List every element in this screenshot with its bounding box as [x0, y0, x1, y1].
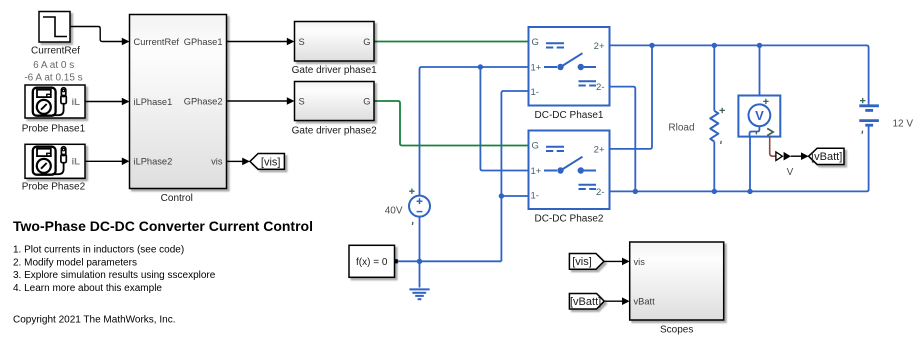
- svg-text:vis: vis: [634, 257, 646, 267]
- svg-text:G: G: [532, 37, 539, 48]
- svg-text:[vis]: [vis]: [261, 157, 281, 169]
- svg-text:2+: 2+: [594, 144, 605, 155]
- svg-text:Probe Phase1: Probe Phase1: [22, 123, 86, 134]
- svg-text:Gate driver phase1: Gate driver phase1: [292, 65, 377, 76]
- svg-text:6 A at 0 s: 6 A at 0 s: [33, 60, 74, 71]
- svg-text:Gate driver phase2: Gate driver phase2: [292, 125, 377, 136]
- svg-text:Rload: Rload: [668, 122, 694, 133]
- svg-text:DC-DC Phase2: DC-DC Phase2: [535, 213, 604, 224]
- svg-text:1+: 1+: [531, 166, 542, 177]
- svg-text:2-: 2-: [596, 187, 604, 198]
- svg-text:G: G: [532, 140, 539, 151]
- svg-text:[vBatt]: [vBatt]: [570, 296, 601, 308]
- svg-text:[vBatt]: [vBatt]: [811, 151, 842, 163]
- svg-text:1. Plot currents in inductors: 1. Plot currents in inductors (see code): [13, 245, 184, 256]
- svg-text:CurrentRef: CurrentRef: [134, 37, 180, 47]
- svg-text:GPhase1: GPhase1: [184, 37, 223, 47]
- svg-text:V: V: [787, 167, 794, 178]
- svg-text:V: V: [755, 108, 764, 123]
- svg-text:40V: 40V: [385, 206, 403, 217]
- svg-text:S: S: [299, 37, 305, 47]
- svg-text:GPhase2: GPhase2: [184, 96, 223, 106]
- svg-text:Copyright 2021 The MathWorks,: Copyright 2021 The MathWorks, Inc.: [13, 315, 176, 326]
- svg-text:iL: iL: [72, 157, 81, 168]
- svg-text:CurrentRef: CurrentRef: [31, 45, 80, 56]
- svg-text:S: S: [299, 96, 305, 106]
- svg-text:1-: 1-: [531, 190, 539, 201]
- svg-text:1+: 1+: [531, 62, 542, 73]
- svg-text:12 V: 12 V: [893, 118, 914, 129]
- svg-text:3. Explore simulation results: 3. Explore simulation results using ssce…: [13, 270, 216, 281]
- svg-text:iL: iL: [72, 97, 81, 108]
- svg-text:Control: Control: [161, 193, 193, 204]
- svg-text:vis: vis: [211, 157, 223, 167]
- svg-text:4. Learn more about this examp: 4. Learn more about this example: [13, 283, 162, 294]
- svg-text:2+: 2+: [594, 41, 605, 52]
- svg-text:Two-Phase DC-DC Converter Curr: Two-Phase DC-DC Converter Current Contro…: [13, 218, 313, 234]
- svg-text:1-: 1-: [531, 87, 539, 98]
- svg-text:vBatt: vBatt: [634, 297, 656, 307]
- svg-text:G: G: [363, 96, 370, 106]
- svg-text:2-: 2-: [596, 82, 604, 93]
- svg-text:[vis]: [vis]: [572, 256, 592, 268]
- svg-text:Scopes: Scopes: [660, 325, 693, 336]
- svg-text:Probe Phase2: Probe Phase2: [22, 181, 86, 192]
- svg-text:iLPhase2: iLPhase2: [134, 157, 173, 167]
- svg-text:iLPhase1: iLPhase1: [134, 97, 173, 107]
- svg-text:G: G: [363, 37, 370, 47]
- svg-text:DC-DC Phase1: DC-DC Phase1: [535, 110, 604, 121]
- svg-text:2. Modify model parameters: 2. Modify model parameters: [13, 257, 137, 268]
- svg-text:f(x) = 0: f(x) = 0: [356, 257, 388, 268]
- svg-text:-6 A at 0.15 s: -6 A at 0.15 s: [24, 72, 82, 83]
